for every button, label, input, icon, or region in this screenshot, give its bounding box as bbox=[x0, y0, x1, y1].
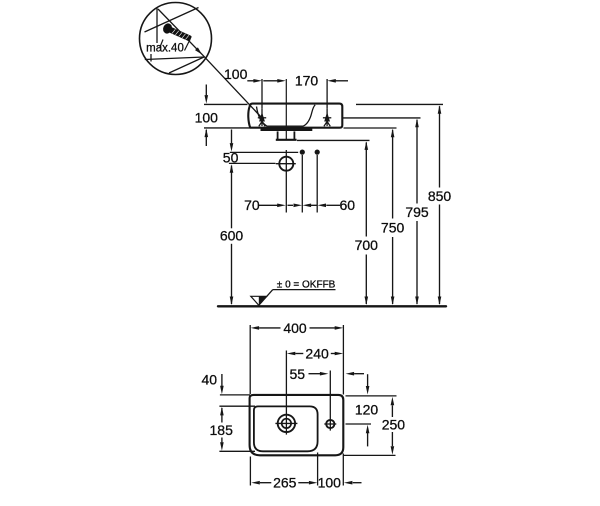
dim40 arrow down bbox=[220, 386, 224, 395]
dim 50 bottom line bbox=[229, 162, 276, 164]
plan faucet ext v bbox=[285, 351, 287, 435]
dim265 line right bbox=[298, 482, 309, 484]
ext plan top edge right bbox=[346, 395, 397, 397]
faucet hole side bbox=[279, 157, 293, 171]
ext plan hole level right bbox=[346, 423, 372, 425]
dim 795 bbox=[415, 119, 419, 128]
dim line 100 left seg bbox=[247, 80, 255, 82]
svg-text:700: 700 bbox=[355, 237, 379, 253]
dim 700 bbox=[365, 141, 369, 150]
svg-text:170: 170 bbox=[295, 72, 319, 88]
floor line bbox=[218, 305, 446, 307]
ext plan top edge left bbox=[220, 394, 250, 396]
ext 700 bbox=[297, 139, 370, 141]
detail circle bbox=[140, 3, 212, 75]
arrow at 262 right bbox=[253, 79, 262, 83]
ext 795 bbox=[343, 117, 421, 119]
dim250 arrow up bbox=[391, 397, 395, 406]
dim line 170 right seg bbox=[334, 80, 348, 82]
arrow at 286 right bbox=[277, 79, 286, 83]
faucet cross h bbox=[276, 163, 296, 165]
plan hole bbox=[326, 420, 334, 428]
dim 100h lower line bbox=[205, 130, 207, 146]
dim265 line left bbox=[260, 482, 272, 484]
ext 850 bbox=[356, 103, 443, 105]
dot left bbox=[300, 150, 305, 155]
dim 750 bbox=[391, 129, 395, 138]
svg-text:120: 120 bbox=[355, 402, 379, 418]
plan outline bbox=[250, 395, 344, 455]
mounting plate bbox=[261, 128, 313, 131]
dim120 arrow down bbox=[366, 386, 370, 395]
datum slant bbox=[267, 290, 273, 297]
dot left ext bbox=[301, 155, 303, 213]
dim55 line bbox=[309, 373, 321, 375]
plan faucet cross h bbox=[275, 422, 297, 424]
datum triangle outline bbox=[251, 296, 267, 305]
plan hole cross h bbox=[324, 423, 336, 425]
dot right ext bbox=[316, 155, 318, 213]
dim185 line upper bbox=[221, 408, 223, 423]
drain centerline bbox=[285, 79, 287, 139]
dim 50 arrow down bbox=[230, 143, 234, 152]
plan faucet outer bbox=[278, 415, 295, 432]
detail bottom chord bbox=[145, 57, 204, 60]
svg-text:50: 50 bbox=[223, 150, 239, 166]
dim55 arrow right bbox=[320, 372, 329, 376]
ext plan left low bbox=[249, 457, 251, 486]
ext plan bottom right bbox=[343, 454, 396, 456]
fixing hole left bbox=[258, 109, 266, 127]
svg-text:70: 70 bbox=[244, 197, 260, 213]
dim600 arrow floor bbox=[230, 297, 234, 306]
detail leader arrowhead bbox=[195, 47, 202, 54]
svg-text:100: 100 bbox=[224, 66, 248, 82]
dim 100h arrow up bbox=[205, 129, 209, 138]
dim240 line right bbox=[331, 353, 335, 355]
svg-text:600: 600 bbox=[220, 227, 244, 243]
dim 50 upper tail bbox=[231, 130, 233, 144]
arrow at 327 left bbox=[327, 79, 336, 83]
dim120 tail top bbox=[367, 374, 369, 386]
plan faucet inner bbox=[282, 419, 291, 428]
dim55 arrow left bbox=[346, 372, 355, 376]
dim70 tail bbox=[259, 204, 278, 206]
dim 850 bbox=[438, 105, 442, 114]
dim185 arrow down bbox=[220, 442, 224, 451]
dim 100h upper line bbox=[205, 85, 207, 96]
dim70 arrow right at dot bbox=[294, 204, 303, 208]
dim600 line lower bbox=[231, 244, 233, 304]
ext line left fixing bbox=[261, 79, 263, 109]
ext bowl bottom left bbox=[219, 450, 255, 452]
dim185 line lower bbox=[221, 438, 223, 443]
screw tick left bbox=[160, 40, 163, 48]
basin bottom ext left bbox=[204, 127, 250, 129]
svg-text:± 0 = OKFFB: ± 0 = OKFFB bbox=[277, 280, 336, 291]
trap left side bbox=[277, 131, 279, 139]
dim400 line right bbox=[310, 327, 336, 329]
svg-text:185: 185 bbox=[210, 422, 234, 438]
dim55 tail right bbox=[354, 373, 364, 375]
trap bottom bbox=[276, 139, 297, 141]
dim60 tail bbox=[326, 204, 340, 206]
svg-text:55: 55 bbox=[290, 366, 306, 382]
dim265 arrow right bbox=[309, 481, 318, 485]
dim250 arrow down bbox=[391, 446, 395, 455]
dim 100h arrow down bbox=[205, 95, 209, 104]
dot right bbox=[315, 150, 320, 155]
dim40 tail top bbox=[221, 374, 223, 386]
svg-text:40: 40 bbox=[202, 371, 218, 387]
dim600 line upper bbox=[231, 166, 233, 229]
dim120 tail bottom bbox=[367, 433, 369, 446]
dim 50 arrow up bbox=[230, 164, 234, 173]
svg-text:60: 60 bbox=[340, 197, 356, 213]
datum underline bbox=[273, 289, 336, 291]
bowl interior left curve bbox=[257, 107, 268, 127]
detail leader inner bbox=[158, 9, 204, 56]
fixing hole right bbox=[323, 109, 331, 127]
ext plan left top bbox=[249, 325, 251, 394]
basin side outline bbox=[248, 104, 342, 128]
svg-text:100: 100 bbox=[195, 110, 219, 126]
leader line to basin bbox=[204, 56, 262, 118]
dim250 line upper bbox=[391, 405, 393, 417]
bowl interior right curve bbox=[303, 105, 315, 126]
svg-text:795: 795 bbox=[405, 204, 429, 220]
dim400 arrow right bbox=[335, 326, 344, 330]
ext bowl top left bbox=[219, 405, 255, 407]
svg-text:100: 100 bbox=[318, 475, 342, 491]
detail wall vertical bbox=[156, 8, 158, 44]
plan hole ext v bbox=[329, 371, 331, 431]
svg-text:265: 265 bbox=[273, 475, 297, 491]
detail chord upper bbox=[145, 8, 199, 33]
dim400 arrow left bbox=[251, 326, 260, 330]
screw max.40 bbox=[161, 22, 192, 44]
ext line right fixing bbox=[326, 79, 328, 109]
svg-text:750: 750 bbox=[381, 220, 405, 236]
ext plan right vertical low bbox=[342, 454, 344, 486]
dim120 arrow up bbox=[366, 425, 370, 434]
ext plan right vertical bbox=[342, 325, 344, 395]
detail lower chord bbox=[169, 57, 204, 73]
svg-text:850: 850 bbox=[428, 188, 452, 204]
bowl interior bottom bbox=[267, 125, 303, 127]
dim240 arrow left bbox=[287, 352, 296, 356]
dim100 arrow left bbox=[344, 481, 353, 485]
dim240 line left bbox=[295, 353, 303, 355]
dim 50 top line bbox=[230, 151, 298, 153]
detail tick below text bbox=[150, 54, 152, 62]
dim60 arrow left at dot2 bbox=[318, 204, 327, 208]
svg-text:max.40: max.40 bbox=[146, 43, 184, 55]
dim400 line left bbox=[259, 327, 280, 329]
dim60 seg bbox=[311, 204, 317, 206]
svg-text:400: 400 bbox=[283, 320, 307, 336]
dim line 100 mid seg bbox=[263, 80, 279, 82]
datum triangle fill bbox=[259, 296, 267, 305]
faucet cross v ext bbox=[285, 150, 287, 213]
dim250 line lower bbox=[391, 432, 393, 446]
svg-text:250: 250 bbox=[382, 416, 406, 432]
trap right side bbox=[293, 131, 295, 139]
plan bowl bbox=[254, 406, 318, 451]
screw tick right bbox=[185, 40, 191, 51]
dim265 arrow left bbox=[251, 481, 259, 485]
ext basin top left bbox=[204, 103, 248, 105]
dim100 tail right bbox=[353, 482, 362, 484]
dim70 arrow right at faucet bbox=[277, 204, 286, 208]
svg-text:240: 240 bbox=[305, 346, 329, 362]
dim40 arrow up bbox=[220, 407, 224, 416]
dim60 arrow left at dot bbox=[303, 204, 312, 208]
dim70 seg2 bbox=[288, 204, 294, 206]
dim240 arrow right bbox=[335, 352, 344, 356]
ext plan trap bbox=[317, 453, 319, 486]
ext 750 bbox=[344, 127, 397, 129]
